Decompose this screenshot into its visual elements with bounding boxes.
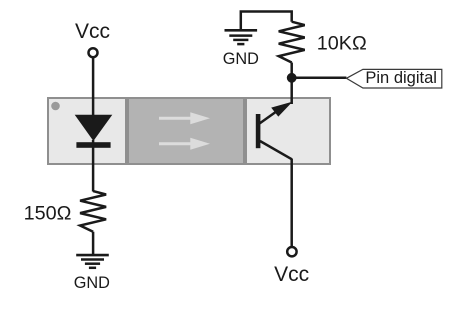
phototransistor Q1 upper lead with arrow [260, 108, 283, 124]
wire LED cathode to resistor R1 [92, 140, 95, 192]
svg-text:150Ω: 150Ω [24, 203, 72, 225]
LED D1 triangle [75, 115, 113, 141]
optocoupler body: left LED section [48, 98, 126, 164]
terminal circle (bottom Vcc) [287, 247, 296, 256]
light arrow 1 [159, 112, 210, 124]
LED D1 cathode bar [76, 142, 110, 148]
resistor R1 150 ohm zigzag [80, 191, 106, 232]
svg-text:Vcc: Vcc [75, 20, 110, 43]
wire Vcc terminal to LED anode [92, 58, 95, 116]
Pin digital callout pointer box [346, 69, 441, 88]
terminal circle (top left Vcc) [89, 48, 98, 57]
optocoupler body: right transistor section [246, 98, 330, 164]
svg-text:GND: GND [223, 50, 259, 68]
junction node dot [287, 73, 297, 83]
wire junction down to phototransistor collector [290, 78, 293, 104]
ground symbol (top) [225, 30, 258, 44]
ground symbol (bottom left) [76, 255, 109, 268]
wire resistor R2 to junction [290, 63, 293, 78]
phototransistor Q1 base bar [256, 114, 261, 148]
light arrow 2 [159, 138, 210, 150]
svg-text:10KΩ: 10KΩ [317, 33, 367, 55]
svg-text:Vcc: Vcc [274, 263, 309, 286]
svg-text:GND: GND [74, 274, 110, 292]
resistor R2 10K zigzag [279, 22, 305, 63]
wire junction to Pin digital pointer [292, 77, 347, 80]
wire emitter down to Vcc terminal [290, 159, 293, 247]
phototransistor Q1 lower lead [260, 141, 292, 159]
wire top: GND to resistor R2 top [241, 12, 292, 30]
wire resistor R1 to ground [92, 232, 95, 255]
pin-1 marker dot [51, 102, 60, 111]
svg-text:Pin digital: Pin digital [365, 69, 437, 87]
optocoupler body: middle coupling section [128, 98, 244, 164]
